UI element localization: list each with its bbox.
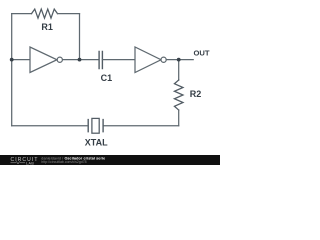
wire U2 output to OUT: [166, 59, 193, 61]
resistor R2: [174, 80, 183, 110]
wire top-right from R1 to corner: [58, 13, 80, 15]
CircuitLab logo text: [11, 157, 39, 165]
wire bottom right to XTAL: [103, 125, 179, 127]
svg-text:LAB: LAB: [26, 161, 34, 165]
wire C1 to inverter U2: [102, 59, 135, 61]
crystal XTAL plates: [88, 120, 103, 132]
wire left vertical: [11, 14, 13, 126]
wire R2 bottom lead: [178, 110, 180, 126]
resistor R1: [32, 9, 58, 18]
crystal XTAL body rect: [92, 118, 99, 133]
node junction OUT: [177, 58, 181, 62]
footer bar: [0, 155, 220, 165]
svg-text:C1: C1: [101, 73, 113, 83]
wire top-left from corner to R1: [12, 13, 32, 15]
svg-text:XTAL: XTAL: [85, 138, 108, 148]
capacitor C1: [99, 51, 102, 68]
wire OUT junction down to R2: [178, 60, 180, 80]
svg-text:http://circuitlab.com/c/s2gd78: http://circuitlab.com/c/s2gd78: [41, 160, 86, 164]
wire XTAL to bottom left: [12, 125, 89, 127]
op-amp U2 inverter triangle: [135, 47, 161, 73]
op-amp U1 inverter triangle: [30, 47, 57, 73]
wire feedback vertical: [79, 14, 81, 60]
wire U1 output to C1: [62, 59, 99, 61]
op-amp U2 bubble: [161, 57, 166, 62]
svg-text:OUT: OUT: [194, 48, 210, 57]
node junction left: [10, 58, 14, 62]
op-amp U1 bubble: [57, 57, 62, 62]
wire inverter U1 input: [12, 59, 30, 61]
svg-text:R2: R2: [190, 89, 202, 99]
svg-text:R1: R1: [41, 22, 53, 32]
node junction U1 output: [78, 58, 82, 62]
